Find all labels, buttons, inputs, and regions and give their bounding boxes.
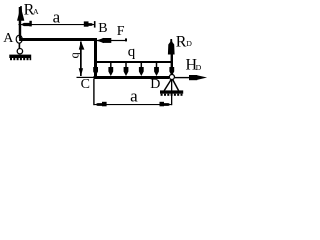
reaction arrow RA: [17, 6, 24, 38]
dimension a (bottom) line: [95, 104, 172, 105]
dimension a (bottom) left arrow: [95, 102, 107, 107]
ground hatch at D: [160, 90, 183, 95]
column member B-C: [94, 38, 97, 79]
beam A-B: [19, 38, 96, 41]
roller circle at A: [17, 49, 22, 54]
dimension b top arrow (up): [79, 41, 85, 49]
pin circle at A: [16, 35, 22, 43]
svg-text:B: B: [98, 21, 107, 36]
label RA: [24, 1, 39, 18]
dimension a (top) line: [18, 24, 95, 25]
svg-text:D: D: [196, 63, 202, 72]
svg-text:b: b: [70, 52, 84, 58]
reaction arrow RD: [168, 39, 175, 74]
svg-text:a: a: [53, 7, 61, 26]
svg-text:a: a: [130, 86, 138, 105]
extension line left of C (beam top edge): [77, 77, 95, 78]
svg-text:D: D: [150, 77, 160, 92]
force F arrow: [96, 38, 127, 43]
svg-text:C: C: [81, 77, 90, 92]
svg-text:R: R: [176, 33, 187, 50]
label HD: [186, 57, 202, 74]
dimension b bottom arrow (down): [79, 68, 83, 76]
svg-text:D: D: [186, 39, 192, 48]
dimension b line: [80, 42, 82, 77]
dimension a (top) left arrow: [21, 21, 32, 27]
extension line below C: [93, 79, 94, 105]
distributed load line: [94, 61, 173, 63]
beam C-D: [94, 76, 170, 79]
svg-text:A: A: [3, 31, 14, 46]
force HD arrow: [175, 75, 207, 80]
pin circle at D: [169, 74, 174, 79]
extension line below D: [171, 80, 172, 106]
roller link at A: [19, 43, 21, 49]
distributed load arrows q: [93, 62, 174, 76]
dimension a (top) right arrow: [84, 21, 94, 26]
extension tick at B: [94, 21, 96, 28]
ground hatch at A: [9, 55, 31, 61]
dimension a (bottom) right arrow: [160, 102, 171, 107]
svg-text:F: F: [117, 24, 125, 39]
svg-text:q: q: [128, 44, 136, 60]
label RD: [176, 33, 193, 50]
support triangle legs at D: [164, 80, 178, 91]
svg-text:A: A: [33, 7, 39, 16]
